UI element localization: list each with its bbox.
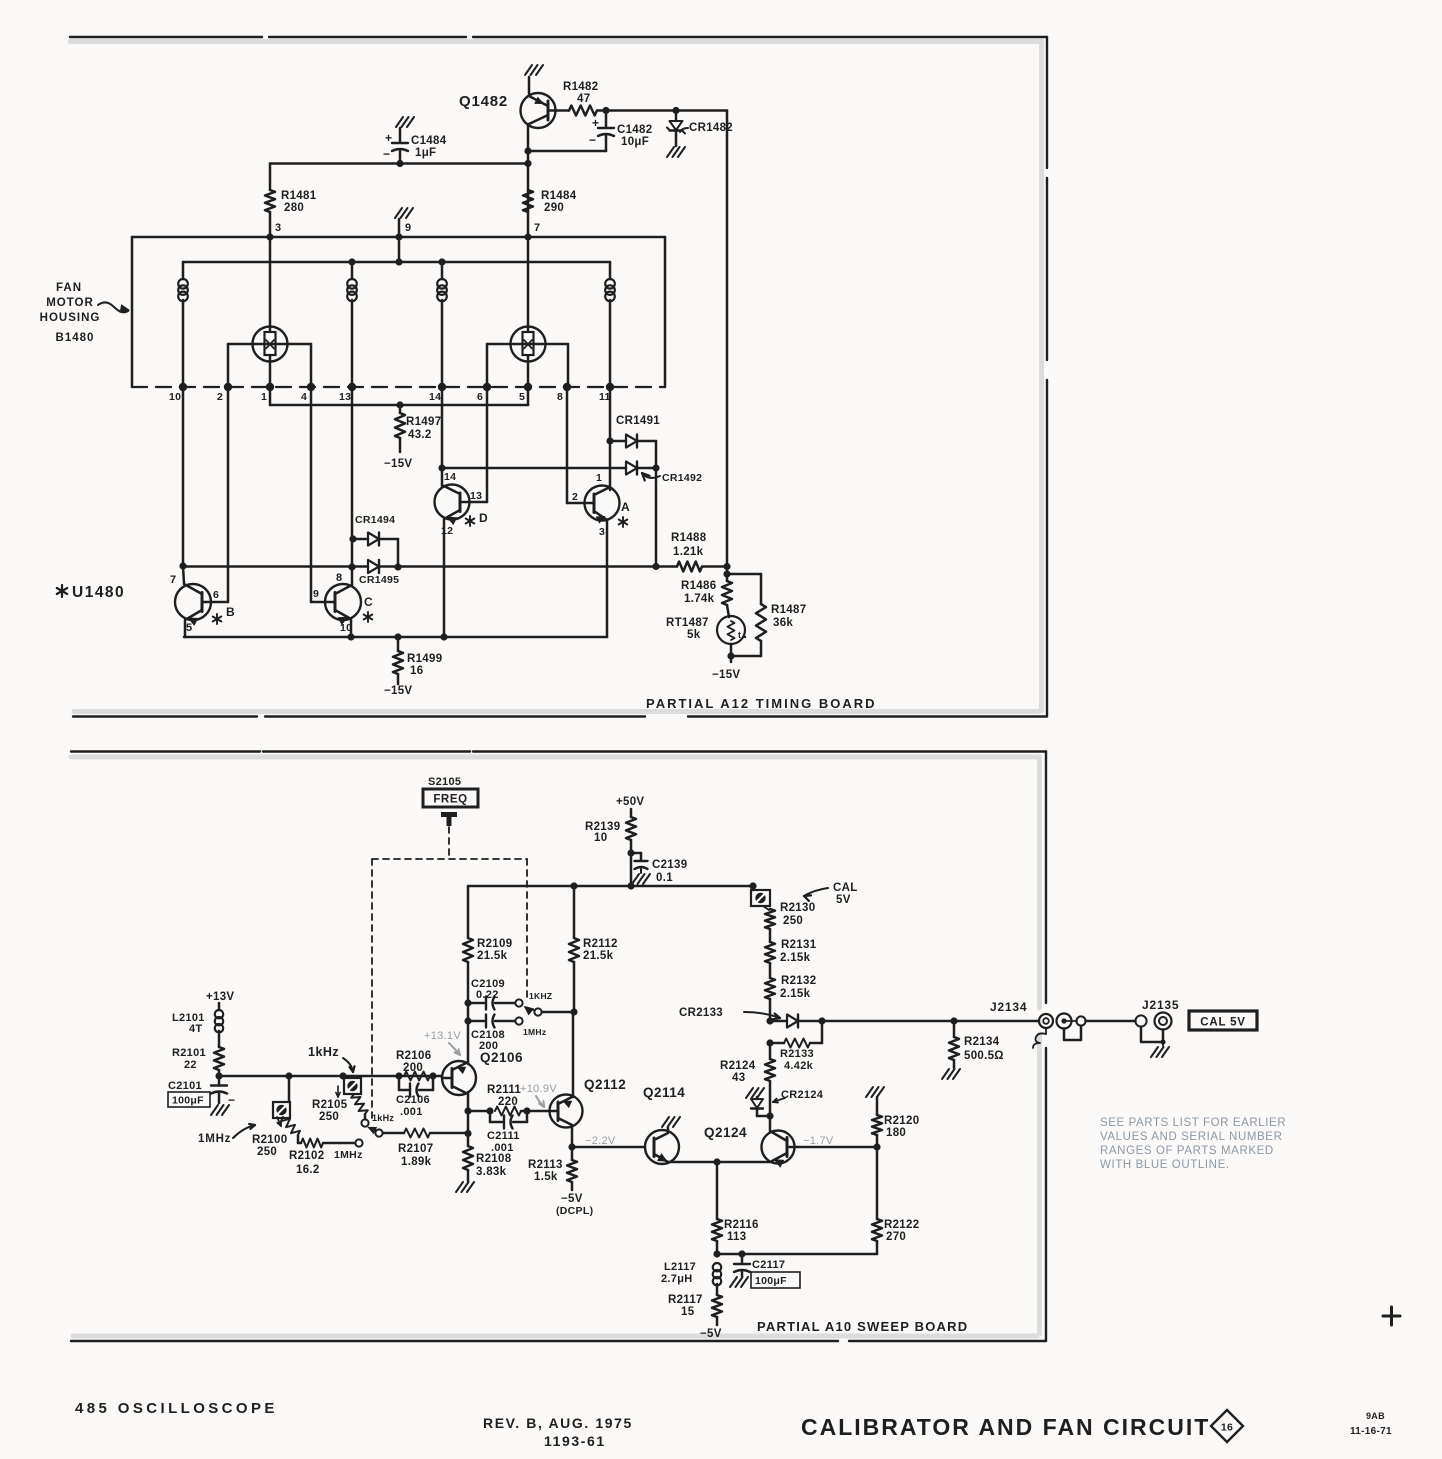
svg-text:R2106: R2106	[396, 1050, 431, 1062]
svg-text:6: 6	[213, 589, 219, 601]
svg-text:−: −	[589, 133, 596, 147]
svg-text:43.2: 43.2	[408, 429, 432, 441]
svg-text:100μF: 100μF	[755, 1275, 787, 1287]
svg-text:3: 3	[275, 222, 281, 234]
svg-text:WITH BLUE OUTLINE.: WITH BLUE OUTLINE.	[1100, 1159, 1230, 1171]
svg-text:C: C	[364, 595, 373, 609]
svg-text:R2111: R2111	[487, 1084, 521, 1096]
svg-text:SEE PARTS LIST FOR EARLIER: SEE PARTS LIST FOR EARLIER	[1100, 1117, 1286, 1129]
svg-text:1μF: 1μF	[415, 147, 436, 159]
svg-text:R1497: R1497	[406, 416, 441, 428]
svg-text:16.2: 16.2	[296, 1164, 320, 1176]
svg-text:RANGES OF PARTS MARKED: RANGES OF PARTS MARKED	[1100, 1145, 1274, 1157]
svg-text:250: 250	[257, 1146, 277, 1158]
svg-text:5: 5	[519, 391, 525, 403]
svg-text:5V: 5V	[836, 894, 851, 906]
svg-text:2: 2	[217, 391, 223, 403]
svg-text:1MHz: 1MHz	[334, 1149, 363, 1161]
svg-text:47: 47	[577, 93, 590, 105]
svg-text:1193-61: 1193-61	[544, 1433, 606, 1449]
svg-text:CALIBRATOR AND FAN CIRCUIT: CALIBRATOR AND FAN CIRCUIT	[801, 1414, 1210, 1440]
svg-text:(DCPL): (DCPL)	[556, 1205, 593, 1217]
svg-text:21.5k: 21.5k	[477, 950, 508, 962]
svg-text:9: 9	[405, 222, 411, 234]
svg-text:D: D	[479, 511, 488, 525]
svg-text:PARTIAL A10 SWEEP BOARD: PARTIAL A10 SWEEP BOARD	[757, 1319, 968, 1334]
svg-text:500.5Ω: 500.5Ω	[964, 1050, 1004, 1062]
svg-text:R2102: R2102	[289, 1150, 324, 1162]
svg-text:−: −	[383, 147, 390, 161]
svg-text:J2135: J2135	[1142, 998, 1179, 1012]
svg-text:270: 270	[886, 1231, 906, 1243]
svg-text:CR1494: CR1494	[355, 514, 395, 526]
svg-text:VALUES AND SERIAL NUMBER: VALUES AND SERIAL NUMBER	[1100, 1131, 1282, 1143]
svg-text:100μF: 100μF	[172, 1095, 204, 1107]
svg-text:R1482: R1482	[563, 81, 598, 93]
svg-text:R2131: R2131	[781, 939, 817, 951]
svg-text:−1.7V: −1.7V	[803, 1135, 834, 1147]
svg-text:13: 13	[470, 490, 482, 502]
svg-text:13: 13	[339, 391, 351, 403]
svg-text:6: 6	[477, 391, 483, 403]
svg-text:CR2124: CR2124	[781, 1089, 824, 1101]
svg-text:250: 250	[783, 915, 803, 927]
svg-text:R2101: R2101	[172, 1047, 206, 1059]
svg-text:1.74k: 1.74k	[684, 593, 715, 605]
svg-text:R2107: R2107	[398, 1143, 433, 1155]
svg-text:8: 8	[557, 391, 563, 403]
svg-text:2.7μH: 2.7μH	[661, 1273, 692, 1285]
svg-text:21.5k: 21.5k	[583, 950, 614, 962]
svg-text:+: +	[385, 131, 392, 145]
svg-text:R2124: R2124	[720, 1060, 756, 1072]
svg-text:1: 1	[261, 391, 267, 403]
svg-text:R2100: R2100	[252, 1134, 287, 1146]
svg-text:4: 4	[301, 391, 307, 403]
svg-text:22: 22	[184, 1059, 197, 1071]
svg-text:7: 7	[534, 222, 540, 234]
svg-text:5k: 5k	[687, 629, 701, 641]
svg-text:Q2114: Q2114	[643, 1085, 685, 1100]
svg-text:10: 10	[340, 622, 352, 634]
svg-text:2.15k: 2.15k	[780, 988, 811, 1000]
svg-text:FREQ: FREQ	[433, 794, 467, 806]
svg-text:+50V: +50V	[616, 796, 644, 808]
svg-text:−5V: −5V	[700, 1328, 722, 1340]
svg-text:1.5k: 1.5k	[534, 1171, 558, 1183]
svg-text:R1484: R1484	[541, 190, 577, 202]
svg-text:3.83k: 3.83k	[476, 1166, 507, 1178]
svg-text:Q2124: Q2124	[704, 1125, 747, 1140]
svg-text:9: 9	[313, 588, 319, 600]
svg-text:CAL: CAL	[833, 882, 858, 894]
svg-text:2: 2	[572, 491, 578, 503]
svg-text:485 OSCILLOSCOPE: 485 OSCILLOSCOPE	[75, 1400, 278, 1417]
svg-text:C2106: C2106	[396, 1094, 430, 1106]
svg-text:1kHz: 1kHz	[308, 1045, 339, 1059]
svg-text:R1487: R1487	[771, 604, 806, 616]
svg-text:HOUSING: HOUSING	[40, 312, 101, 324]
svg-text:R2130: R2130	[780, 902, 815, 914]
svg-text:MOTOR: MOTOR	[46, 297, 94, 309]
svg-text:0.22: 0.22	[476, 989, 499, 1001]
svg-text:16: 16	[1221, 1422, 1233, 1434]
svg-text:C1482: C1482	[617, 124, 652, 136]
svg-text:CR1491: CR1491	[616, 415, 660, 427]
svg-text:1.89k: 1.89k	[401, 1156, 432, 1168]
svg-text:4.42k: 4.42k	[784, 1060, 814, 1072]
svg-text:3: 3	[599, 526, 605, 538]
svg-text:CR1492: CR1492	[662, 472, 702, 484]
svg-text:4T: 4T	[189, 1023, 202, 1035]
svg-text:C2111: C2111	[487, 1130, 520, 1142]
svg-text:250: 250	[319, 1111, 339, 1123]
svg-text:−: −	[228, 1093, 235, 1107]
svg-text:8: 8	[336, 572, 342, 584]
svg-text:1KHZ: 1KHZ	[529, 991, 552, 1001]
svg-text:200: 200	[403, 1062, 423, 1074]
svg-text:RT1487: RT1487	[666, 617, 709, 629]
svg-text:B: B	[226, 605, 235, 619]
svg-text:Q1482: Q1482	[459, 93, 508, 110]
svg-text:R1488: R1488	[671, 532, 707, 544]
svg-text:14: 14	[429, 391, 441, 403]
svg-text:1: 1	[596, 472, 602, 484]
svg-text:R2120: R2120	[884, 1115, 919, 1127]
svg-text:280: 280	[284, 202, 304, 214]
svg-text:113: 113	[727, 1231, 746, 1243]
svg-text:B1480: B1480	[56, 332, 95, 344]
svg-text:R2105: R2105	[312, 1099, 348, 1111]
svg-text:R1486: R1486	[681, 580, 716, 592]
svg-text:+13V: +13V	[206, 991, 234, 1003]
svg-text:R2133: R2133	[780, 1048, 814, 1060]
svg-text:+13.1V: +13.1V	[424, 1030, 461, 1042]
svg-text:C2101: C2101	[168, 1080, 202, 1092]
svg-text:R2116: R2116	[724, 1219, 759, 1231]
svg-text:C2139: C2139	[652, 859, 687, 871]
svg-text:15: 15	[681, 1306, 695, 1318]
svg-text:−15V: −15V	[384, 685, 412, 697]
svg-text:PARTIAL A12 TIMING BOARD: PARTIAL A12 TIMING BOARD	[646, 696, 877, 711]
svg-text:CR2133: CR2133	[679, 1007, 723, 1019]
svg-text:9AB: 9AB	[1366, 1411, 1385, 1421]
svg-text:R2108: R2108	[476, 1153, 512, 1165]
svg-text:+: +	[592, 116, 599, 130]
svg-text:290: 290	[544, 202, 564, 214]
svg-text:CAL 5V: CAL 5V	[1200, 1017, 1246, 1029]
svg-text:11-16-71: 11-16-71	[1350, 1426, 1392, 1437]
svg-text:U1480: U1480	[72, 584, 125, 601]
svg-text:J2134: J2134	[990, 1000, 1027, 1014]
svg-text:180: 180	[886, 1127, 906, 1139]
svg-text:.001: .001	[400, 1106, 423, 1118]
svg-text:1kHz: 1kHz	[372, 1113, 394, 1123]
svg-text:1MHz: 1MHz	[198, 1133, 231, 1145]
svg-text:10μF: 10μF	[621, 136, 649, 148]
svg-text:R2112: R2112	[583, 938, 618, 950]
svg-text:−15V: −15V	[384, 458, 412, 470]
svg-text:16: 16	[410, 665, 423, 677]
svg-text:FAN: FAN	[56, 282, 82, 294]
svg-text:R2122: R2122	[884, 1219, 919, 1231]
svg-text:43: 43	[732, 1072, 745, 1084]
svg-text:R1499: R1499	[407, 653, 442, 665]
svg-text:14: 14	[444, 471, 456, 483]
svg-text:S2105: S2105	[428, 776, 461, 788]
svg-text:R2109: R2109	[477, 938, 512, 950]
svg-text:−2.2V: −2.2V	[585, 1135, 616, 1147]
svg-text:2.15k: 2.15k	[780, 952, 811, 964]
svg-text:R2113: R2113	[528, 1159, 563, 1171]
svg-text:R2132: R2132	[781, 975, 816, 987]
svg-text:t: t	[738, 630, 741, 640]
svg-text:Q2106: Q2106	[480, 1050, 523, 1065]
svg-text:CR1495: CR1495	[359, 574, 399, 586]
svg-text:7: 7	[170, 574, 176, 586]
svg-text:R1481: R1481	[281, 190, 317, 202]
svg-text:C1484: C1484	[411, 135, 447, 147]
svg-text:R2117: R2117	[668, 1294, 703, 1306]
svg-text:5: 5	[186, 622, 192, 634]
svg-text:1MHz: 1MHz	[523, 1027, 546, 1037]
svg-text:−15V: −15V	[712, 669, 740, 681]
svg-text:−5V: −5V	[561, 1193, 583, 1205]
svg-text:A: A	[621, 500, 630, 514]
svg-text:C2117: C2117	[752, 1259, 785, 1271]
svg-text:R2134: R2134	[964, 1036, 1000, 1048]
svg-text:10: 10	[594, 832, 607, 844]
svg-text:36k: 36k	[773, 617, 793, 629]
svg-text:Q2112: Q2112	[584, 1077, 626, 1092]
svg-text:1.21k: 1.21k	[673, 546, 704, 558]
svg-text:10: 10	[169, 391, 181, 403]
svg-text:0.1: 0.1	[656, 872, 673, 884]
svg-text:+10.9V: +10.9V	[520, 1083, 557, 1095]
svg-text:.001: .001	[491, 1142, 514, 1154]
svg-text:220: 220	[498, 1096, 518, 1108]
svg-text:L2117: L2117	[664, 1261, 696, 1273]
svg-text:REV. B, AUG. 1975: REV. B, AUG. 1975	[483, 1415, 633, 1431]
svg-text:12: 12	[441, 525, 453, 537]
